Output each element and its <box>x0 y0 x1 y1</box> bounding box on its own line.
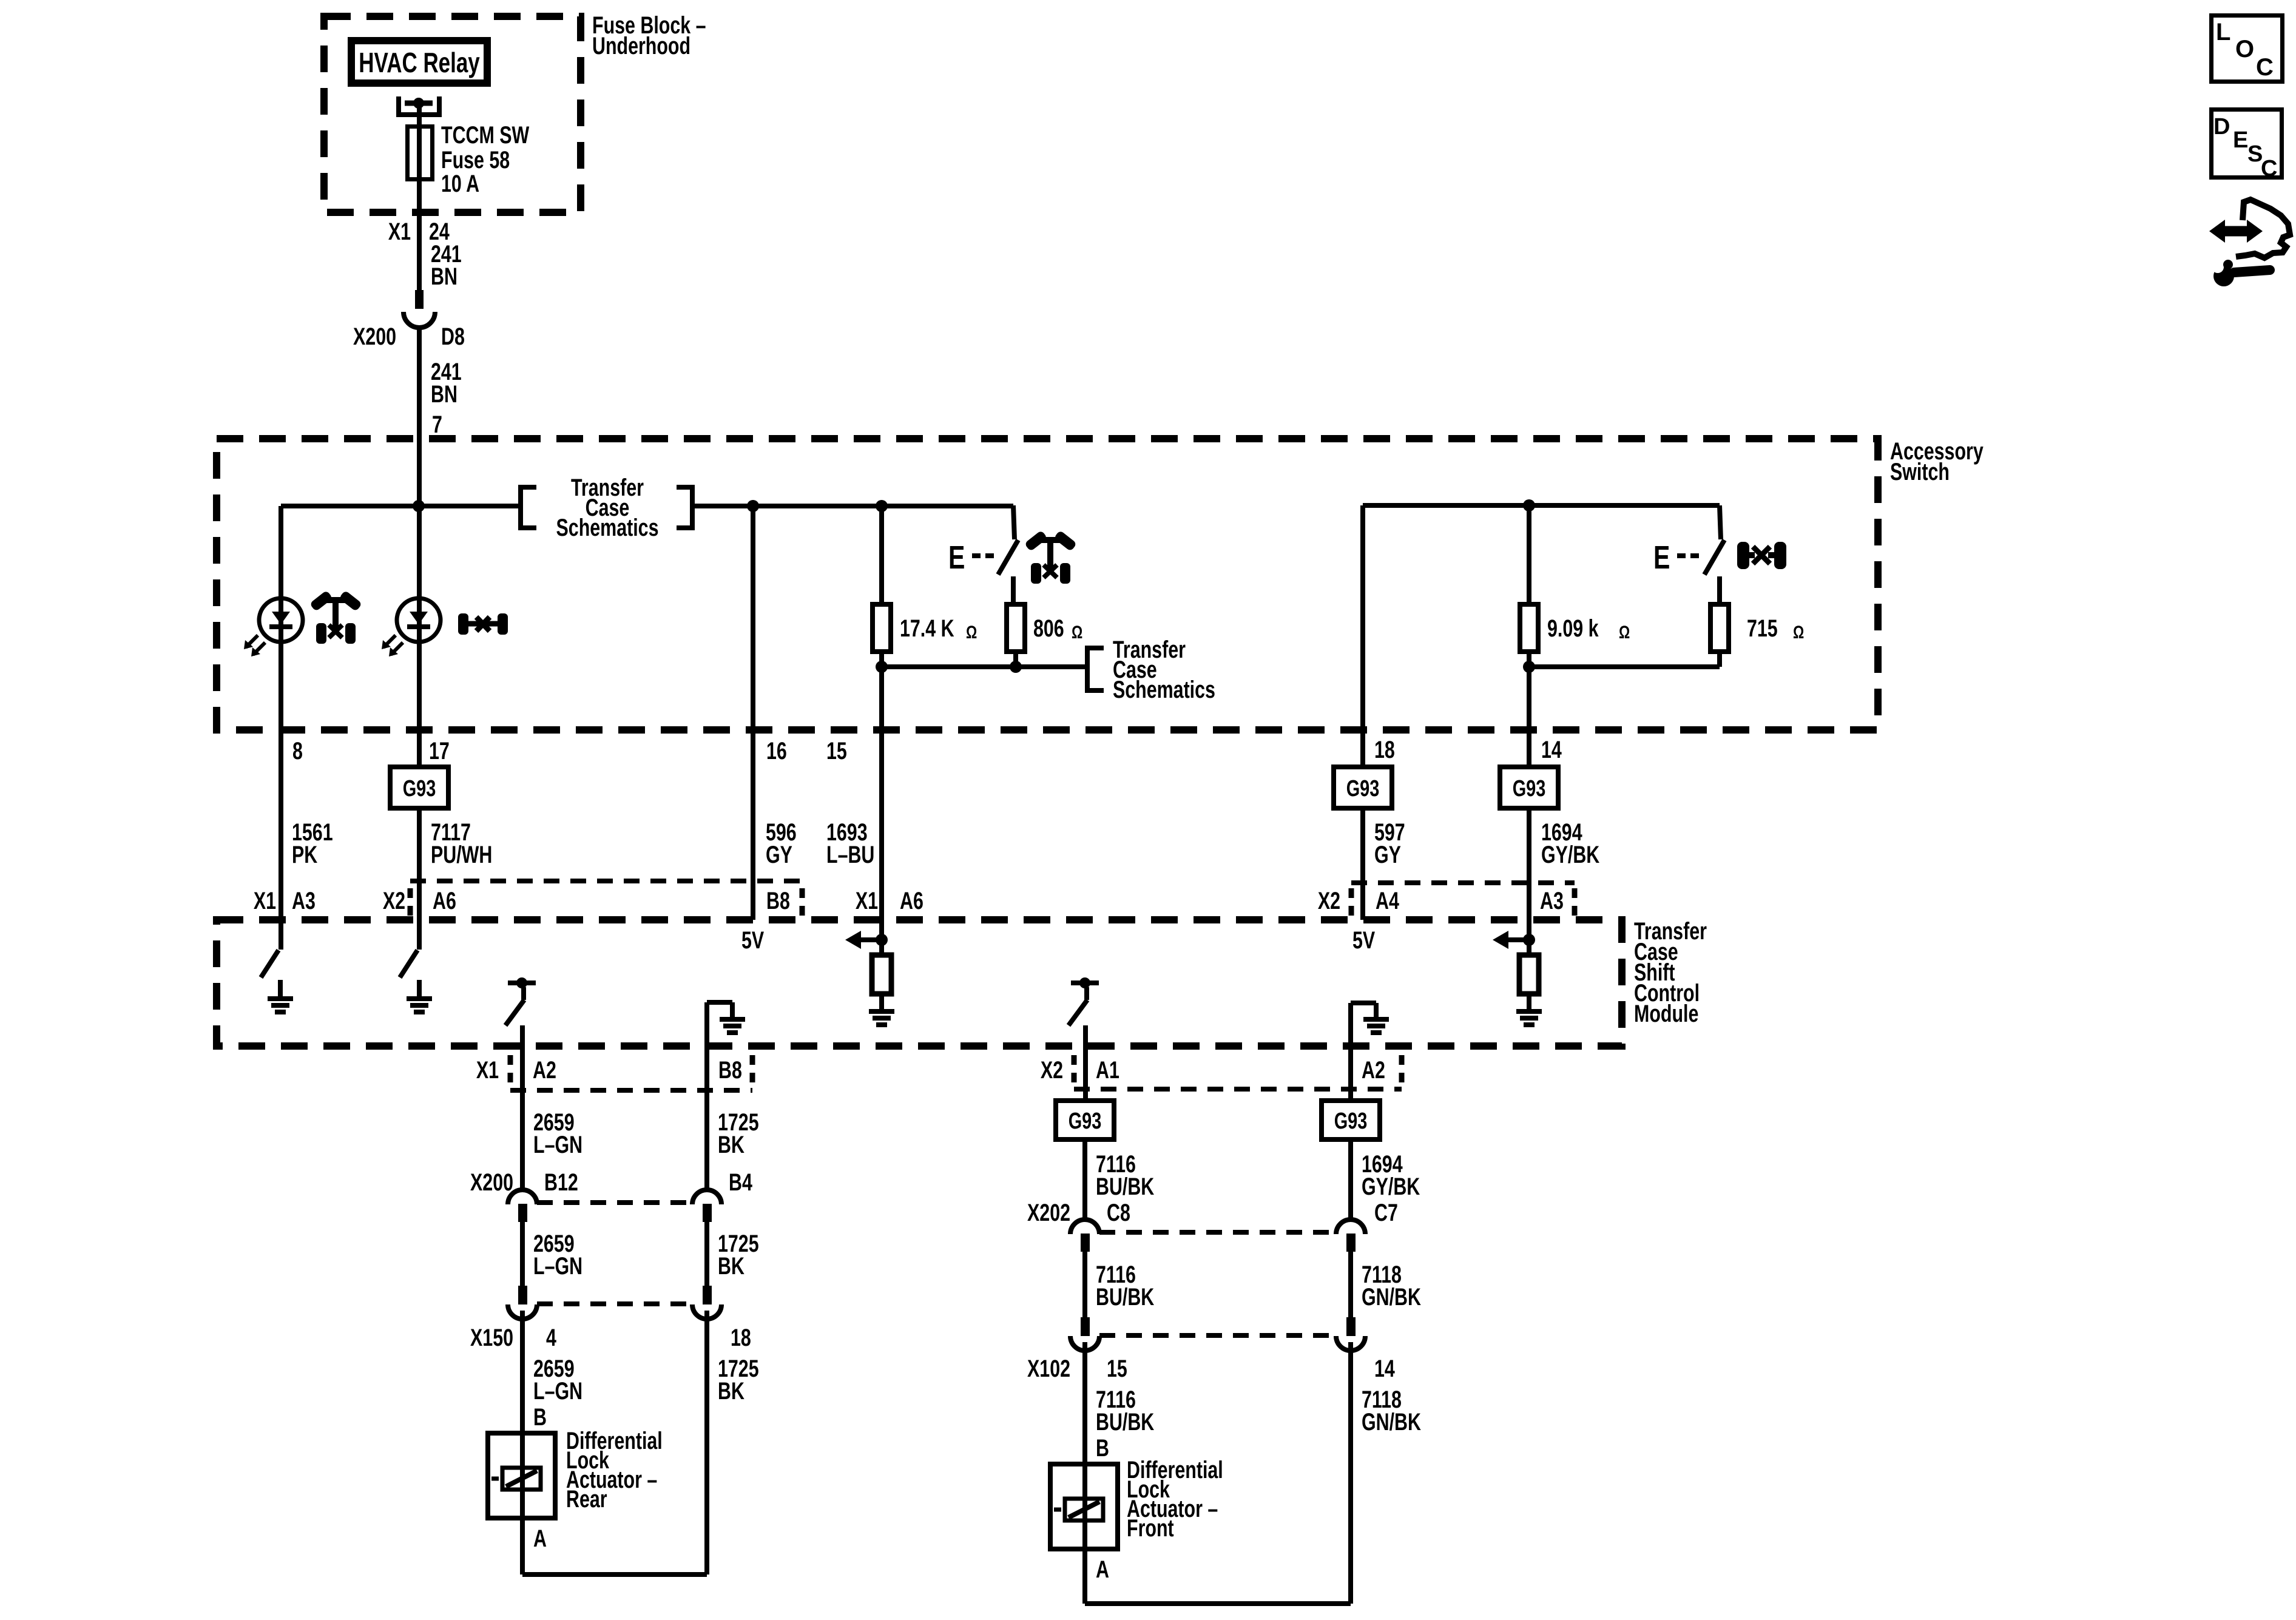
svg-text:C8: C8 <box>1107 1199 1130 1226</box>
svg-text:E: E <box>1653 540 1670 576</box>
svg-text:G93: G93 <box>1069 1108 1102 1134</box>
svg-text:A6: A6 <box>433 887 456 914</box>
svg-text:GN/BK: GN/BK <box>1362 1283 1421 1311</box>
svg-text:A: A <box>533 1525 547 1552</box>
svg-text:7: 7 <box>432 411 442 438</box>
svg-text:Rear: Rear <box>566 1485 607 1513</box>
svg-text:X1: X1 <box>254 887 276 914</box>
svg-text:A3: A3 <box>292 887 316 914</box>
svg-text:Ω: Ω <box>1072 622 1082 643</box>
svg-text:X200: X200 <box>353 323 396 350</box>
svg-text:L–GN: L–GN <box>533 1131 582 1158</box>
svg-text:GY/BK: GY/BK <box>1541 841 1600 868</box>
svg-text:BN: BN <box>431 263 458 290</box>
svg-text:A4: A4 <box>1376 887 1399 914</box>
svg-text:BK: BK <box>718 1131 745 1158</box>
svg-text:GY/BK: GY/BK <box>1362 1173 1420 1200</box>
svg-text:B: B <box>533 1403 547 1431</box>
svg-text:Switch: Switch <box>1890 458 1950 485</box>
svg-text:B8: B8 <box>718 1056 742 1084</box>
svg-text:C: C <box>2261 156 2277 181</box>
svg-text:L–BU: L–BU <box>826 841 874 868</box>
svg-text:15: 15 <box>826 737 847 764</box>
svg-text:Underhood: Underhood <box>592 32 690 59</box>
svg-text:G93: G93 <box>1513 775 1546 802</box>
svg-text:Front: Front <box>1127 1514 1174 1542</box>
svg-text:B12: B12 <box>544 1169 578 1196</box>
svg-text:BU/BK: BU/BK <box>1096 1408 1155 1436</box>
svg-text:X1: X1 <box>388 218 411 245</box>
svg-text:G93: G93 <box>403 775 436 802</box>
svg-text:PK: PK <box>292 841 318 868</box>
svg-text:17: 17 <box>429 737 450 764</box>
svg-text:GN/BK: GN/BK <box>1362 1408 1421 1436</box>
svg-text:X1: X1 <box>856 887 878 914</box>
svg-text:X2: X2 <box>1318 887 1340 914</box>
svg-text:715: 715 <box>1747 615 1778 642</box>
svg-text:E: E <box>948 540 965 576</box>
svg-text:A1: A1 <box>1096 1056 1119 1084</box>
svg-text:Ω: Ω <box>966 622 977 643</box>
svg-text:17.4 K: 17.4 K <box>900 615 954 642</box>
svg-text:A2: A2 <box>1362 1056 1385 1084</box>
svg-text:5V: 5V <box>741 926 764 954</box>
svg-text:E: E <box>2233 127 2248 153</box>
svg-text:L–GN: L–GN <box>533 1252 582 1280</box>
svg-text:10 A: 10 A <box>441 170 479 197</box>
svg-text:A3: A3 <box>1540 887 1564 914</box>
svg-text:Schematics: Schematics <box>556 514 659 541</box>
svg-text:GY: GY <box>1374 841 1401 868</box>
svg-text:O: O <box>2235 36 2254 62</box>
svg-text:8: 8 <box>292 737 303 764</box>
svg-text:TCCM SW: TCCM SW <box>441 121 530 149</box>
svg-text:Schematics: Schematics <box>1113 676 1215 703</box>
svg-text:X2: X2 <box>1041 1056 1063 1084</box>
svg-text:BN: BN <box>431 380 458 408</box>
svg-text:4: 4 <box>546 1324 556 1351</box>
svg-text:HVAC Relay: HVAC Relay <box>359 47 480 78</box>
svg-text:14: 14 <box>1541 736 1562 763</box>
svg-text:X2: X2 <box>383 887 405 914</box>
svg-text:D8: D8 <box>441 323 465 350</box>
svg-text:18: 18 <box>1374 736 1395 763</box>
svg-text:L: L <box>2216 19 2230 46</box>
svg-text:L–GN: L–GN <box>533 1377 582 1405</box>
svg-text:5V: 5V <box>1352 926 1375 954</box>
svg-text:BU/BK: BU/BK <box>1096 1283 1155 1311</box>
svg-text:Module: Module <box>1634 1000 1698 1027</box>
svg-text:806: 806 <box>1033 615 1064 642</box>
svg-text:GY: GY <box>766 841 792 868</box>
svg-text:C7: C7 <box>1374 1199 1398 1226</box>
svg-text:16: 16 <box>766 737 787 764</box>
svg-text:X1: X1 <box>476 1056 499 1084</box>
svg-text:15: 15 <box>1107 1355 1127 1382</box>
svg-text:A: A <box>1096 1556 1109 1583</box>
svg-text:A6: A6 <box>900 887 923 914</box>
svg-text:D: D <box>2213 114 2230 140</box>
svg-text:X200: X200 <box>470 1169 513 1196</box>
svg-text:C: C <box>2256 54 2274 81</box>
svg-text:BU/BK: BU/BK <box>1096 1173 1155 1200</box>
svg-text:18: 18 <box>731 1324 751 1351</box>
svg-text:G93: G93 <box>1346 775 1380 802</box>
svg-text:BK: BK <box>718 1252 745 1280</box>
svg-text:A2: A2 <box>533 1056 556 1084</box>
svg-text:14: 14 <box>1374 1355 1395 1382</box>
svg-text:X150: X150 <box>470 1324 513 1351</box>
svg-text:G93: G93 <box>1334 1108 1368 1134</box>
svg-text:B4: B4 <box>729 1169 752 1196</box>
svg-text:PU/WH: PU/WH <box>431 841 492 868</box>
svg-text:B8: B8 <box>766 887 790 914</box>
svg-text:B: B <box>1096 1434 1109 1462</box>
svg-text:Ω: Ω <box>1619 622 1630 643</box>
svg-text:9.09 k: 9.09 k <box>1547 615 1599 642</box>
svg-text:X102: X102 <box>1027 1355 1070 1382</box>
svg-text:BK: BK <box>718 1377 745 1405</box>
svg-text:X202: X202 <box>1027 1199 1070 1226</box>
svg-text:Ω: Ω <box>1793 622 1804 643</box>
